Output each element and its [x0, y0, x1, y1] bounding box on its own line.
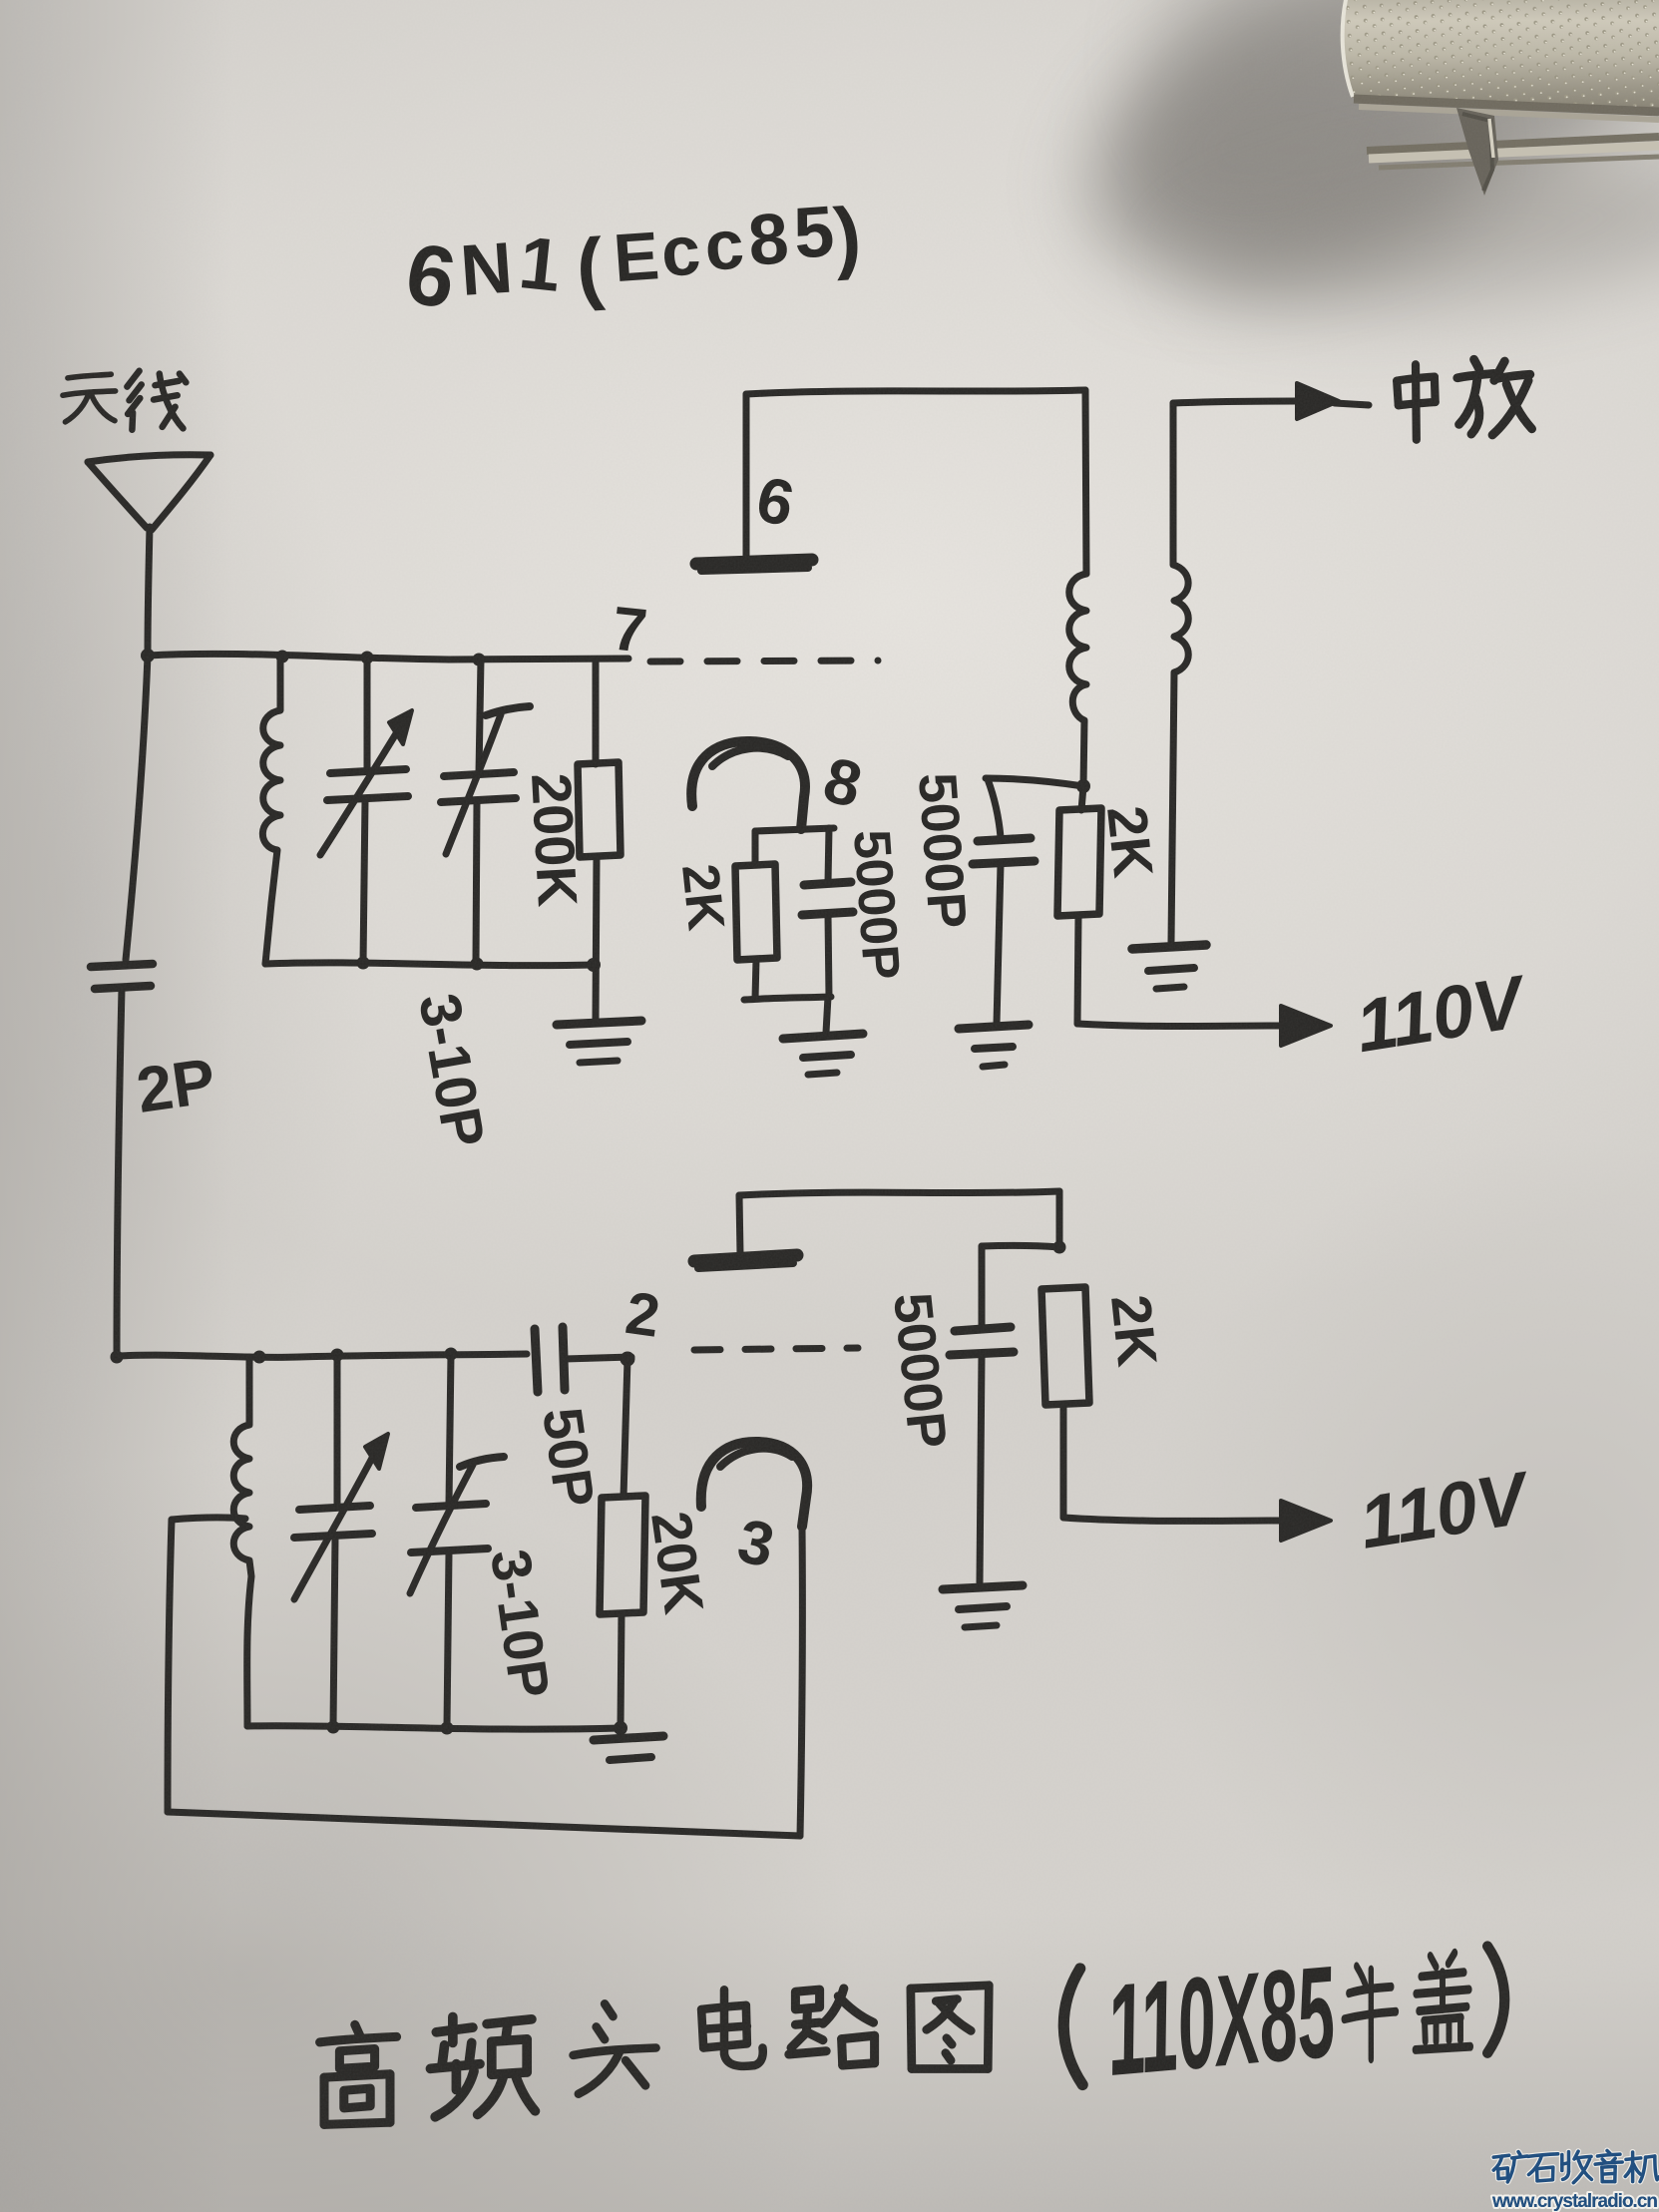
cathode RC top wire	[755, 828, 834, 831]
tube V1b anode plate pin1	[694, 1195, 797, 1268]
ground below lower decoupling cap	[943, 1585, 1023, 1627]
watermark 矿石收音机	[1491, 2150, 1659, 2212]
wire feedback left vertical	[168, 1520, 172, 1812]
ground below cathode RC	[783, 1034, 863, 1075]
110V label lower	[1354, 1456, 1537, 1564]
variable capacitor C3 lower	[294, 1355, 388, 1726]
inductor L1 upper tank coil	[262, 657, 280, 964]
capacitor 50P series	[535, 1327, 631, 1392]
variable capacitor C4 lower trimmer	[410, 1354, 504, 1726]
node junction	[141, 649, 155, 663]
resistor 2K anode upper	[1057, 786, 1101, 1024]
wire lower grid bus	[117, 1354, 527, 1357]
inductor IFT secondary	[1171, 403, 1188, 942]
capacitor 2P	[91, 964, 153, 989]
ground below decoupling cap	[959, 1025, 1029, 1067]
cathode RC bottom wire	[744, 997, 831, 1000]
resistor 20K	[600, 1359, 645, 1727]
wire left drop to 2P	[126, 656, 148, 960]
bottom caption 牛盖）	[1344, 1953, 1470, 2058]
wire upper grid bus	[148, 654, 628, 660]
node anode-load junction	[1076, 779, 1090, 793]
clip shadow	[1037, 0, 1659, 355]
wire dashed grid lead pin2	[694, 1348, 858, 1350]
ground below IFT secondary	[1132, 945, 1206, 989]
ground below 20K	[594, 1736, 663, 1760]
wire feedback bottom long	[168, 1812, 800, 1836]
110V label upper	[1351, 959, 1534, 1068]
clip bar	[1367, 137, 1659, 151]
metal clip	[1342, 0, 1659, 196]
arrow to IF amp	[1297, 383, 1339, 419]
arrow to 110V upper	[1281, 1006, 1331, 1046]
bottom caption (110X85	[1063, 1969, 1082, 2085]
inductor L2 lower tank coil	[233, 1357, 251, 1726]
resistor 2K cathode	[735, 831, 777, 999]
wire cathode feedback right vertical	[800, 1527, 802, 1836]
tube V1a cathode hook pin8	[691, 741, 805, 829]
resistor 200K	[578, 660, 621, 1020]
node 2 junction	[621, 1352, 635, 1367]
antenna	[88, 455, 210, 462]
resistor 2K lower	[1041, 1287, 1089, 1518]
wire antenna down	[148, 527, 150, 656]
wire jog to decoupling cap	[986, 778, 1083, 786]
wire 110V feed lower	[1063, 1518, 1281, 1521]
node dots on bus	[276, 651, 289, 664]
wire lower tank bottom bus	[247, 1726, 621, 1729]
node junction lower anode	[1053, 1241, 1066, 1254]
wire upper tank bottom bus	[265, 963, 594, 966]
capacitor 5000P anode decoupling	[973, 838, 1035, 1024]
arrow to 110V lower	[1281, 1501, 1331, 1541]
antenna label 天线	[63, 371, 186, 430]
capacitor 5000P lower decoupling	[950, 1246, 1014, 1582]
wire dashed grid lead pin7	[650, 661, 878, 662]
tube V1b cathode hook pin3	[701, 1442, 807, 1527]
INK	[63, 190, 1537, 2124]
variable capacitor C2 upper trimmer	[441, 660, 530, 963]
wire anode lower to right	[739, 1191, 1059, 1195]
ground below 200K	[557, 1021, 641, 1063]
capacitor 5000P cathode	[802, 828, 853, 997]
wire 2P down to lower bus	[117, 989, 122, 1356]
wire coil tap	[172, 1518, 245, 1520]
wire to IF output	[1173, 401, 1297, 403]
bottom caption 高频头电路图	[320, 1986, 990, 2125]
inductor IFT primary	[1069, 574, 1086, 786]
wire RC to ground	[826, 997, 828, 1033]
wire anode to IFT primary	[746, 390, 1085, 394]
title 6N1 (Ecc85)	[392, 190, 865, 330]
clip tab	[1456, 108, 1498, 196]
label 中放	[1397, 359, 1531, 439]
wire 110V feed upper	[1077, 1024, 1281, 1027]
wire jog to lower decoupling cap	[982, 1245, 1059, 1247]
variable capacitor C1 upper	[320, 659, 412, 963]
tube V1a anode plate pin6	[696, 394, 812, 571]
